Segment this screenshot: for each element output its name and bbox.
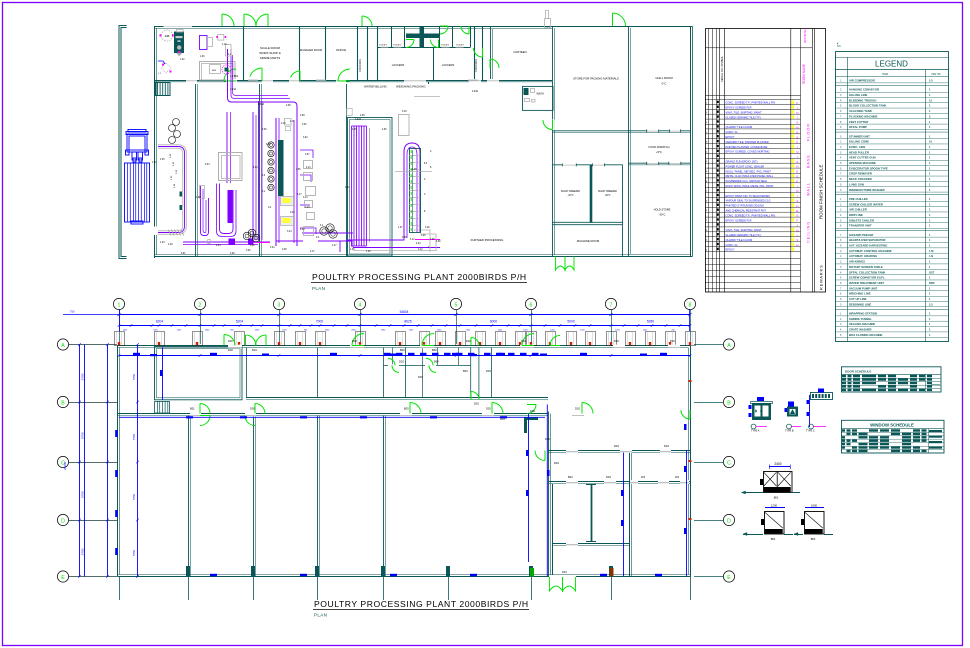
svg-text:PAINTED PLASTER, COVED BASE: PAINTED PLASTER, COVED BASE [726,145,768,149]
svg-text:5750: 5750 [132,373,136,380]
svg-text:CONC. FL.: CONC. FL. [726,243,739,247]
svg-text:SHRINK TUNNEL: SHRINK TUNNEL [849,317,872,321]
svg-text:CRATE WASHER: CRATE WASHER [849,328,871,332]
svg-text:3.07: 3.07 [305,154,310,156]
svg-text:3.08: 3.08 [266,144,271,146]
svg-text:1.49: 1.49 [168,244,173,246]
svg-text:D02: D02 [474,402,479,406]
svg-text:1-M: 1-M [929,249,933,253]
svg-text:VINYL TILE, SKIRTING, PAINT: VINYL TILE, SKIRTING, PAINT [726,228,762,232]
svg-text:MANAGER ROOM: MANAGER ROOM [300,48,322,52]
svg-text:D02: D02 [352,339,357,343]
svg-text:TYPE A: TYPE A [751,430,760,433]
svg-text:1.03: 1.03 [160,242,165,244]
svg-text:3.03A: 3.03A [258,103,264,106]
svg-text:AUTOMAT. GRADING: AUTOMAT. GRADING [849,254,877,258]
svg-text:20000: 20000 [63,461,67,470]
svg-text:1-N: 1-N [929,254,933,258]
svg-text:D02: D02 [670,339,675,343]
svg-text:WATER BILLING: WATER BILLING [364,85,388,89]
svg-text:2.17: 2.17 [310,251,315,253]
svg-text:4: 4 [359,302,362,308]
svg-text:CONC. FL.: CONC. FL. [726,130,739,134]
svg-text:FEET CUTTER: FEET CUTTER [849,120,868,124]
svg-text:B03: B03 [400,348,405,352]
svg-text:3.24: 3.24 [270,247,275,249]
svg-text:D02: D02 [614,339,619,343]
svg-text:1.04: 1.04 [165,35,170,38]
svg-text:7000: 7000 [316,320,324,324]
svg-text:1.06: 1.06 [200,56,205,58]
svg-text:OFFAL COLLECTION TANK: OFFAL COLLECTION TANK [849,270,885,274]
svg-text:1: 1 [118,302,121,308]
svg-text:3: 3 [278,302,281,308]
svg-text:C E I L I N G: C E I L I N G [807,222,811,243]
svg-text:TOILET: TOILET [441,45,449,47]
svg-text:S: S [796,175,798,179]
svg-text:VENT CUTTER GUN: VENT CUTTER GUN [849,156,876,160]
svg-text:I: I [797,233,798,237]
svg-text:4.03A: 4.03A [472,90,478,93]
svg-text:ROOM NO.: ROOM NO. [803,27,807,43]
svg-text:3.44: 3.44 [287,231,292,233]
svg-text:ROOM FINISH SCHEDULE: ROOM FINISH SCHEDULE [819,165,824,219]
svg-text:3.08: 3.08 [230,253,235,255]
svg-text:D03: D03 [530,409,535,413]
svg-text:8: 8 [689,302,692,308]
svg-text:PLUCKING MACHINE: PLUCKING MACHINE [849,114,878,118]
svg-text:METAL CLAD INSULATED PANEL WAL: METAL CLAD INSULATED PANEL WALL [726,174,774,178]
svg-text:GIZZARD PEELER: GIZZARD PEELER [849,233,873,237]
svg-text:WEIGHING,PACKING: WEIGHING,PACKING [396,85,426,89]
svg-text:A: A [727,343,731,349]
svg-text:S: S [796,238,798,242]
svg-text:FOOD DISPATCH: FOOD DISPATCH [649,145,670,149]
svg-text:2.5: 2.5 [929,302,933,306]
svg-text:CHILL ROOM: CHILL ROOM [655,76,673,80]
svg-text:F L O O R: F L O O R [807,124,811,141]
svg-text:TYPE B: TYPE B [785,430,794,433]
svg-text:1.05: 1.05 [160,159,165,161]
svg-text:DRIP LINE: DRIP LINE [849,213,863,217]
svg-text:-40°C: -40°C [568,195,574,197]
svg-text:WRAPPING STATION: WRAPPING STATION [849,312,877,316]
svg-text:BLR: BLR [212,70,217,72]
svg-text:B A S E: B A S E [807,155,811,168]
svg-text:I: I [797,116,798,120]
svg-text:NPR: NPR [929,281,935,285]
svg-text:D01: D01 [252,348,257,352]
svg-text:I: I [797,106,798,110]
svg-text:AUT. GIZZARD HARVESTING: AUT. GIZZARD HARVESTING [849,244,887,248]
svg-text:▮: ▮ [837,42,838,45]
svg-text:E: E [61,575,65,581]
svg-text:MACHINE ROOM: MACHINE ROOM [577,239,600,243]
svg-text:1.06: 1.06 [421,235,426,237]
svg-text:2.17: 2.17 [332,245,337,247]
svg-text:EPOXY PAINT FIN. TO BLOCKWORK: EPOXY PAINT FIN. TO BLOCKWORK [726,194,771,198]
svg-text:POULTRY PROCESSING PLANT 2000B: POULTRY PROCESSING PLANT 2000BIRDS P/H [314,599,529,609]
svg-text:2.10: 2.10 [281,123,286,125]
svg-text:2.09: 2.09 [300,115,305,117]
svg-text:3.02A: 3.02A [355,118,361,121]
svg-text:5750: 5750 [132,433,136,440]
svg-text:3.22: 3.22 [345,187,350,189]
svg-text:ROOM NAME: ROOM NAME [802,64,806,84]
svg-text:3.02: 3.02 [303,137,308,139]
svg-text:CERAMIC TILE, PAINTED PLASTER: CERAMIC TILE, PAINTED PLASTER [726,140,769,144]
svg-text:F: F [796,140,798,144]
svg-text:SPARE PARTS: SPARE PARTS [260,56,281,60]
svg-text:F: F [796,179,798,183]
svg-text:FURTHER PROCESSING: FURTHER PROCESSING [471,238,504,242]
svg-text:LEGEND: LEGEND [875,60,908,69]
svg-text:0°C: 0°C [662,82,667,86]
svg-text:WASH: WASH [537,93,544,96]
svg-text:8625: 8625 [404,320,412,324]
svg-text:QUARRY TILE FLOOR: QUARRY TILE FLOOR [726,238,753,242]
svg-text:E: E [727,575,731,581]
svg-text:3.17: 3.17 [297,194,302,196]
svg-text:I: I [797,184,798,188]
svg-text:BLEEDING TROUGH: BLEEDING TROUGH [849,98,876,102]
svg-text:SCREW CONVEYOR ELEV.: SCREW CONVEYOR ELEV. [849,276,885,280]
svg-text:POWER FLOAT CONC, SEALER: POWER FLOAT CONC, SEALER [726,164,765,168]
svg-text:POULTRY PROCESSING PLANT 2000B: POULTRY PROCESSING PLANT 2000BIRDS P/H [312,272,527,282]
svg-text:W4: W4 [675,475,679,479]
svg-text:CUT UP LINE: CUT UP LINE [849,297,867,301]
svg-text:EVISCERATOR SPOON TYPE: EVISCERATOR SPOON TYPE [849,166,888,170]
svg-text:3.23: 3.23 [300,229,305,231]
svg-text:B: B [727,400,731,406]
svg-text:-30°C: -30°C [659,213,666,217]
svg-text:6000: 6000 [490,320,498,324]
svg-text:B04: B04 [568,475,573,479]
svg-text:4.06: 4.06 [430,239,435,241]
svg-text:5750: 5750 [80,373,84,380]
svg-text:1-5: 1-5 [929,79,933,83]
svg-text:STORE FOR PACKING MATERIALS: STORE FOR PACKING MATERIALS [573,77,619,81]
svg-text:EPOXY: EPOXY [726,248,735,252]
svg-text:EPOXY SCREED FLR: EPOXY SCREED FLR [726,106,752,110]
svg-text:B: B [61,400,65,406]
svg-text:HOLD STORE: HOLD STORE [654,208,671,212]
svg-text:3.12: 3.12 [418,249,423,251]
svg-text:2: 2 [199,302,202,308]
svg-text:CORRIDOR: CORRIDOR [359,59,362,72]
svg-text:D02: D02 [575,407,580,411]
svg-text:F: F [796,101,798,105]
svg-text:5750: 5750 [80,432,84,439]
svg-text:D: D [61,518,65,524]
svg-text:PER HR: PER HR [931,73,940,76]
svg-text:D02: D02 [228,339,233,343]
svg-text:6: 6 [530,302,533,308]
svg-text:2400: 2400 [774,462,781,466]
svg-text:F: F [796,219,798,223]
svg-text:3.48: 3.48 [290,212,295,214]
svg-text:WINDOW SCHEDULE: WINDOW SCHEDULE [870,422,914,427]
svg-text:H: H [796,126,798,130]
svg-text:S: S [796,199,798,203]
svg-text:-40°C: -40°C [605,195,611,197]
svg-text:LOCKERS: LOCKERS [392,63,405,67]
svg-text:I: I [797,145,798,149]
svg-text:ROCK WOOL INSUL METAL PNL, PAI: ROCK WOOL INSUL METAL PNL, PAINT [726,184,774,188]
svg-text:VAPOUR SEAL TO SUSPENDED CLG: VAPOUR SEAL TO SUSPENDED CLG [726,199,771,203]
svg-text:S: S [796,214,798,218]
svg-text:3.09: 3.09 [262,129,267,131]
svg-text:LOCKERS: LOCKERS [442,63,455,67]
svg-text:D03: D03 [500,417,505,421]
svg-text:ITEM: ITEM [882,72,888,76]
svg-text:ROTARY SCREEN TABLE: ROTARY SCREEN TABLE [849,265,883,269]
svg-text:GIBLETS CHILLER: GIBLETS CHILLER [849,218,874,222]
svg-text:S: S [796,121,798,125]
svg-text:1.01: 1.01 [152,162,157,164]
svg-text:5750: 5750 [80,548,84,555]
svg-text:EPOXY SCREED, COVED SKIRTING: EPOXY SCREED, COVED SKIRTING [726,150,770,154]
svg-text:H: H [796,204,798,208]
svg-text:I: I [797,224,798,228]
svg-text:LUNG GUN: LUNG GUN [849,182,864,186]
svg-text:1.02: 1.02 [180,59,185,61]
svg-text:5750: 5750 [80,491,84,498]
svg-text:AIR KNIVES: AIR KNIVES [849,260,865,264]
svg-text:7: 7 [610,302,613,308]
svg-text:3.48: 3.48 [425,227,430,229]
svg-text:D02: D02 [466,339,471,343]
svg-text:1000: 1000 [811,503,818,507]
svg-text:BLAST FREEZER: BLAST FREEZER [598,190,617,193]
svg-text:HEAD PULLER: HEAD PULLER [849,150,869,154]
svg-text:B01: B01 [774,496,779,500]
svg-text:PAINTED GYPSUM BD CEILING: PAINTED GYPSUM BD CEILING [726,204,764,208]
svg-text:OPENING MACHINE: OPENING MACHINE [849,161,876,165]
svg-text:3.06: 3.06 [246,250,251,252]
svg-text:CANTEEN: CANTEEN [513,50,526,54]
svg-text:VACUUM PUMP UNIT: VACUUM PUMP UNIT [849,286,877,290]
svg-text:4.05: 4.05 [382,129,387,131]
svg-text:GLAZED CERAMIC TILE (T.F.): GLAZED CERAMIC TILE (T.F.) [726,115,762,119]
svg-text:TOILET: TOILET [393,45,401,47]
svg-text:S: S [796,135,798,139]
svg-text:D: D [727,518,731,524]
svg-text:AIR COMPRESSOR: AIR COMPRESSOR [849,79,875,83]
svg-text:750: 750 [70,310,75,314]
svg-text:N: N [796,150,798,154]
svg-text:TYPE C: TYPE C [806,430,815,433]
svg-text:D02: D02 [486,407,491,411]
svg-text:QUARRY TILE FLOOR: QUARRY TILE FLOOR [726,125,753,129]
svg-text:BLAST FREEZER: BLAST FREEZER [561,190,580,193]
svg-text:4.05: 4.05 [412,169,417,171]
svg-text:B01: B01 [190,407,195,411]
svg-text:KILLING LINE: KILLING LINE [849,93,867,97]
svg-text:B03: B03 [811,537,816,541]
svg-text:PRE CHILLER: PRE CHILLER [849,197,868,201]
svg-text:SCALDING TANK: SCALDING TANK [849,109,872,113]
svg-text:OST: OST [929,270,935,274]
svg-text:SCREW CHILLER WATER: SCREW CHILLER WATER [849,202,883,206]
svg-text:5750: 5750 [132,493,136,500]
svg-text:D03: D03 [418,375,423,379]
svg-text:5204: 5204 [236,320,244,324]
svg-text:3.05: 3.05 [402,237,407,239]
svg-text:3.12: 3.12 [410,239,415,241]
svg-text:EPOXY: EPOXY [726,135,735,139]
svg-text:STUNNER UNIT: STUNNER UNIT [849,134,870,138]
svg-text:N: N [796,189,798,193]
svg-text:BOX CLOSING MACHINE: BOX CLOSING MACHINE [849,333,883,337]
svg-text:5.01: 5.01 [181,253,186,255]
svg-text:5280: 5280 [647,320,655,324]
svg-text:OFFAL PUMP: OFFAL PUMP [849,125,867,129]
svg-text:H: H [796,243,798,247]
svg-text:4.05: 4.05 [360,115,365,117]
svg-text:SUSPENDED CLG, VAPOUR SEAL: SUSPENDED CLG, VAPOUR SEAL [726,179,768,183]
svg-text:3.14: 3.14 [303,197,308,199]
svg-text:1.07: 1.07 [398,227,403,229]
svg-text:AIR CHILLER: AIR CHILLER [849,208,867,212]
svg-text:CONC. SCREED T.F., PAINTED WAL: CONC. SCREED T.F., PAINTED WALL FIN. [726,101,777,105]
svg-text:D02: D02 [521,339,526,343]
svg-text:D04: D04 [606,475,611,479]
svg-text:N: N [796,111,798,115]
svg-text:TOILET: TOILET [456,45,464,47]
svg-text:2.11: 2.11 [290,121,295,123]
svg-text:D05: D05 [545,437,550,441]
svg-text:B02: B02 [432,348,437,352]
svg-text:4.04: 4.04 [253,167,258,169]
svg-text:W4: W4 [641,475,645,479]
svg-text:SEALING MACHINE: SEALING MACHINE [849,322,875,326]
svg-text:D04: D04 [554,461,559,465]
svg-text:CORRIDOR: CORRIDOR [475,59,478,72]
svg-text:WEIGHING LINE: WEIGHING LINE [849,292,871,296]
svg-text:D05: D05 [250,407,255,411]
svg-text:6204: 6204 [156,320,164,324]
svg-text:1200: 1200 [771,503,778,507]
svg-text:B04: B04 [434,360,439,364]
svg-text:2.08: 2.08 [282,249,287,251]
svg-text:5.04: 5.04 [205,164,210,166]
svg-text:B02: B02 [771,537,776,541]
svg-text:HEART/LIVER SEPARATOR: HEART/LIVER SEPARATOR [849,238,886,242]
svg-text:54804: 54804 [400,310,409,314]
svg-text:3.19: 3.19 [305,207,310,209]
svg-text:2.13: 2.13 [306,167,311,169]
svg-text:WATER TREATMENT UNIT: WATER TREATMENT UNIT [849,281,884,285]
svg-text:WORK SHOP &: WORK SHOP & [259,51,280,55]
svg-text:E: E [796,170,798,174]
svg-text:3.02: 3.02 [302,124,307,126]
svg-text:3.18: 3.18 [402,111,407,113]
svg-text:D01: D01 [562,570,567,574]
svg-text:1.0 BLR: 1.0 BLR [230,76,239,78]
svg-text:BLOOD COLLECTION TANK: BLOOD COLLECTION TANK [849,104,886,108]
svg-text:3.03A: 3.03A [230,88,236,91]
svg-text:I: I [797,155,798,159]
svg-text:2.04: 2.04 [216,245,221,247]
svg-text:1.10: 1.10 [222,44,227,46]
svg-text:D03: D03 [486,369,491,373]
svg-text:D02: D02 [228,348,233,352]
svg-text:INSIDE/OUTSIDE WASHER: INSIDE/OUTSIDE WASHER [849,188,885,192]
svg-text:HANGING CONVEYOR: HANGING CONVEYOR [849,88,879,92]
svg-text:SCALE ROOM: SCALE ROOM [260,46,281,50]
svg-text:H: H [796,165,798,169]
svg-text:CONC. SCREED T.F., PAINTED WAL: CONC. SCREED T.F., PAINTED WALL FIN. [726,213,777,217]
svg-text:R E M A R K S: R E M A R K S [820,265,824,290]
svg-text:NECK CRACKER: NECK CRACKER [849,177,872,181]
svg-text:OFFICE: OFFICE [336,48,346,52]
svg-text:EVISC. LINE: EVISC. LINE [849,145,865,149]
svg-text:CROP REMOVER: CROP REMOVER [849,172,872,176]
svg-text:4.04: 4.04 [416,243,421,245]
svg-text:B04: B04 [463,369,468,373]
svg-text:INSUL. PANEL: METSEC, PVC, PAI: INSUL. PANEL: METSEC, PVC, PAINT [726,169,772,173]
svg-text:AND CHEMICAL RESISTANT PNT: AND CHEMICAL RESISTANT PNT [726,209,767,213]
svg-text:5750: 5750 [132,549,136,556]
svg-text:1.08: 1.08 [196,197,201,199]
svg-text:C: C [727,460,731,466]
svg-text:B03: B03 [404,407,409,411]
svg-text:4.05: 4.05 [352,129,357,131]
svg-text:3.05: 3.05 [296,169,301,171]
svg-text:S: S [796,160,798,164]
svg-text:1.09: 1.09 [366,251,371,253]
svg-text:SERIAL NO. SYMBOL: SERIAL NO. SYMBOL [720,55,724,82]
svg-text:D03: D03 [399,360,404,364]
svg-text:KILLING CONE: KILLING CONE [849,140,869,144]
svg-text:TRANSFER UNIT: TRANSFER UNIT [849,224,872,228]
svg-text:EPOXY SCREED FLR: EPOXY SCREED FLR [726,218,752,222]
svg-text:PLAN: PLAN [312,286,325,291]
svg-text:+5°C: +5°C [656,150,662,154]
svg-text:GRANO FLR (EPOXY JNT): GRANO FLR (EPOXY JNT) [726,160,758,164]
svg-text:I: I [797,194,798,198]
svg-text:TOILET: TOILET [379,45,387,47]
svg-text:NO.: NO. [837,45,842,48]
svg-text:W A L L: W A L L [807,183,811,196]
svg-text:2.08: 2.08 [286,105,291,107]
svg-text:PLAN: PLAN [314,613,327,618]
svg-text:4.06: 4.06 [436,241,441,243]
svg-text:E: E [796,209,798,213]
svg-text:DEBONING LINE: DEBONING LINE [849,302,871,306]
svg-text:3.21: 3.21 [250,245,255,247]
svg-text:A: A [61,343,65,349]
svg-text:E: E [796,130,798,134]
svg-text:N: N [796,228,798,232]
svg-text:D04: D04 [664,444,669,448]
svg-text:D04: D04 [614,444,619,448]
svg-text:5000: 5000 [567,320,575,324]
svg-text:1.09: 1.09 [350,249,355,251]
svg-text:DOOR SCHEDULE: DOOR SCHEDULE [845,369,871,373]
svg-text:AUTOMAT. CONTROL MACHINE: AUTOMAT. CONTROL MACHINE [849,249,892,253]
svg-text:5: 5 [455,302,458,308]
svg-text:GLAZED CERAMIC TILE (T.F.): GLAZED CERAMIC TILE (T.F.) [726,233,762,237]
svg-text:VINYL TILE, SKIRTING, PAINT: VINYL TILE, SKIRTING, PAINT [726,111,762,115]
